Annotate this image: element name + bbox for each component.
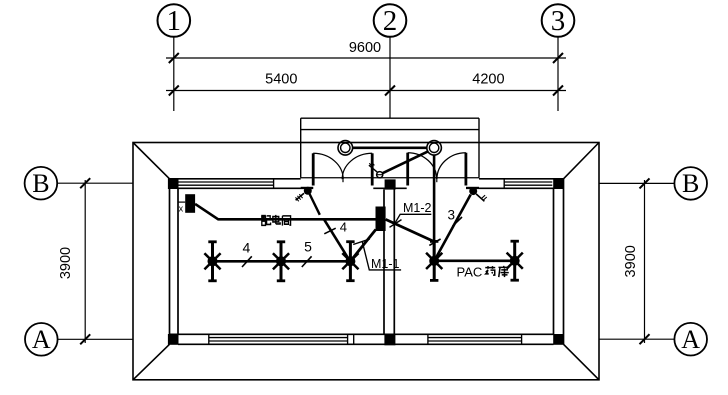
lamp E5 — [507, 241, 523, 280]
axis 2 extension line — [389, 37, 391, 119]
label 配电间 — [261, 215, 290, 226]
svg-text:B: B — [682, 169, 699, 198]
top-right window — [504, 179, 552, 189]
wire M1 to junction (M1-2 circuit) — [386, 219, 435, 241]
wire lamp row right room — [434, 259, 515, 262]
svg-text:B: B — [32, 169, 49, 198]
svg-text:5400: 5400 — [265, 72, 297, 88]
canopy threshold line — [301, 177, 479, 179]
svg-text:M1-1: M1-1 — [371, 257, 400, 271]
leader M1-2 — [390, 214, 432, 227]
svg-text:PAC: PAC — [457, 265, 483, 280]
vertical dimension line left 3900 — [80, 178, 90, 344]
svg-text:5: 5 — [304, 238, 312, 254]
dimension line 5400/4200 — [166, 86, 566, 96]
svg-text:2: 2 — [383, 5, 398, 37]
svg-text:4: 4 — [340, 219, 347, 234]
wire M1 to lamp E3 — [350, 230, 375, 262]
svg-text:3: 3 — [551, 5, 566, 37]
door D1 left leaf — [312, 153, 315, 185]
switch S1 — [296, 187, 312, 202]
axis circle B left — [25, 167, 58, 200]
lamp E4 — [426, 241, 442, 280]
right wall — [554, 179, 564, 344]
door D2 right leaf — [464, 153, 467, 186]
vertical dimension line right 3900 — [640, 178, 650, 344]
svg-text:M1-2: M1-2 — [403, 201, 432, 215]
axis B left line — [57, 182, 133, 184]
building outer outline (eaves) — [133, 143, 599, 380]
column bottom-left — [168, 334, 179, 345]
axis circle 1 — [158, 4, 191, 37]
wire distribution board to M1 box — [195, 204, 375, 219]
lamp E3 — [342, 242, 358, 281]
bottom wall — [170, 334, 554, 344]
axis circle 3 — [542, 4, 575, 37]
bottom-left window — [209, 334, 354, 344]
eave mitre bottom-left — [133, 344, 170, 380]
door D1 left arc — [313, 153, 343, 179]
wire switch S2 to lamp E4 — [434, 195, 471, 262]
axis A left line — [58, 338, 133, 340]
door D2 right arc — [437, 153, 466, 180]
eave mitre top-right — [564, 143, 600, 179]
svg-text:4200: 4200 — [472, 72, 504, 88]
svg-text:A: A — [32, 325, 51, 354]
svg-text:A: A — [681, 325, 700, 354]
axis A right line — [599, 338, 674, 340]
axis circle A right — [674, 323, 707, 356]
canopy light L2 — [427, 141, 442, 156]
junction tick — [429, 239, 440, 245]
column top-center — [385, 179, 396, 189]
door D1 right leaf — [371, 153, 374, 185]
top wall — [170, 179, 564, 189]
conductor tick on circuit 4 — [324, 228, 335, 234]
eave mitre top-left — [133, 143, 170, 179]
left wall — [170, 179, 179, 344]
svg-text:1: 1 — [167, 5, 182, 37]
distribution board — [178, 194, 195, 213]
conductor tick 3 — [453, 217, 463, 226]
M1 panel box — [376, 207, 386, 232]
dimension line 9600 — [166, 53, 566, 63]
conductor tick 1 — [242, 256, 252, 267]
wire lamp row left room — [213, 260, 351, 263]
svg-text:3: 3 — [448, 208, 456, 223]
wire canopy light L2 to pull switch — [382, 151, 429, 173]
door D2 left leaf — [406, 153, 409, 186]
lamp E2 — [273, 242, 289, 281]
wire bus to lamp E3 (circuit 4) — [324, 219, 350, 260]
svg-text:3900: 3900 — [623, 245, 639, 277]
wire switch S1 to bus — [310, 194, 320, 215]
axis circle A left — [25, 323, 58, 356]
wire canopy light L2 down to lamp E4 — [433, 155, 436, 261]
axis 1 extension line — [173, 37, 175, 111]
axis 3 extension line — [557, 37, 559, 111]
canopy light L1 — [338, 141, 353, 156]
canopy side wall bottoms — [301, 187, 314, 189]
interior wall — [384, 189, 394, 334]
svg-text:x: x — [179, 204, 184, 214]
axis circle 2 — [374, 4, 407, 37]
pull switch — [369, 162, 383, 178]
switch S2 — [469, 187, 487, 201]
axis B right line — [599, 182, 674, 184]
column bottom-right — [553, 334, 564, 345]
axis circle B right — [674, 167, 707, 200]
entrance canopy — [301, 118, 479, 178]
eave mitre bottom-right — [564, 344, 600, 380]
conductor tick 2 — [302, 256, 312, 267]
label PAC药库 — [457, 265, 510, 280]
door D1 right arc — [342, 153, 372, 179]
column top-left — [168, 178, 179, 189]
svg-text:9600: 9600 — [349, 40, 381, 56]
column top-right — [553, 178, 564, 189]
svg-text:4: 4 — [243, 239, 251, 255]
top-left window — [178, 179, 274, 189]
leader M1-1 — [353, 239, 401, 270]
door D2 left arc — [408, 153, 437, 180]
wire between canopy lights — [353, 147, 427, 150]
lamp E1 — [204, 242, 220, 281]
column bottom-center — [384, 334, 395, 345]
svg-text:3900: 3900 — [58, 247, 74, 279]
bottom-right window — [428, 334, 522, 344]
